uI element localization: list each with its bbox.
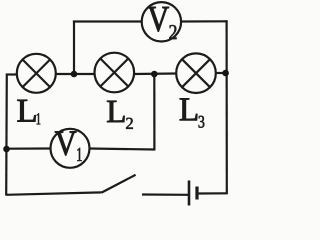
label V1 letter V <box>55 132 76 156</box>
label L3 subscript 3 <box>199 116 205 128</box>
wire V1 branch horizontal left <box>7 147 51 149</box>
junction dot L2-L3 <box>151 71 158 78</box>
wire main horizontal left stub <box>6 73 17 75</box>
voltmeter V1 circle <box>51 129 90 168</box>
switch fixed contact wire <box>142 193 188 196</box>
battery short plate <box>195 187 198 200</box>
wire V2 branch vertical <box>73 21 75 75</box>
junction dot L1-L2 <box>71 71 78 78</box>
label L1 letter L <box>17 100 35 122</box>
label L3 letter L <box>180 98 197 120</box>
label L2 letter L <box>107 101 124 122</box>
wire riser to L2-L3 junction <box>153 74 155 151</box>
label V2 subscript 2 <box>169 25 176 39</box>
label V2 letter V <box>148 7 169 32</box>
lamp L1 <box>17 54 56 93</box>
junction dot right <box>222 70 229 77</box>
lamp L3 <box>176 53 216 93</box>
voltmeter V2 circle <box>142 2 181 41</box>
label L1 subscript 1 <box>37 113 41 124</box>
wire left vertical <box>5 74 8 196</box>
label V1 subscript 1 <box>77 148 81 161</box>
wire top left to V2 <box>73 20 142 22</box>
battery long plate <box>188 181 191 206</box>
wire battery to right <box>198 192 227 194</box>
wire bottom left <box>6 192 101 194</box>
wire L2-L3 <box>134 72 176 75</box>
switch blade <box>102 175 136 193</box>
wire right vertical <box>226 20 228 194</box>
lamp L2 <box>95 53 135 93</box>
wire V1 to riser <box>89 149 154 150</box>
label L2 subscript 2 <box>126 118 133 129</box>
junction dot left <box>3 146 10 153</box>
wire L1-L2 <box>56 73 95 75</box>
wire L3-right <box>216 72 227 74</box>
wire V2 to top right <box>182 20 228 22</box>
